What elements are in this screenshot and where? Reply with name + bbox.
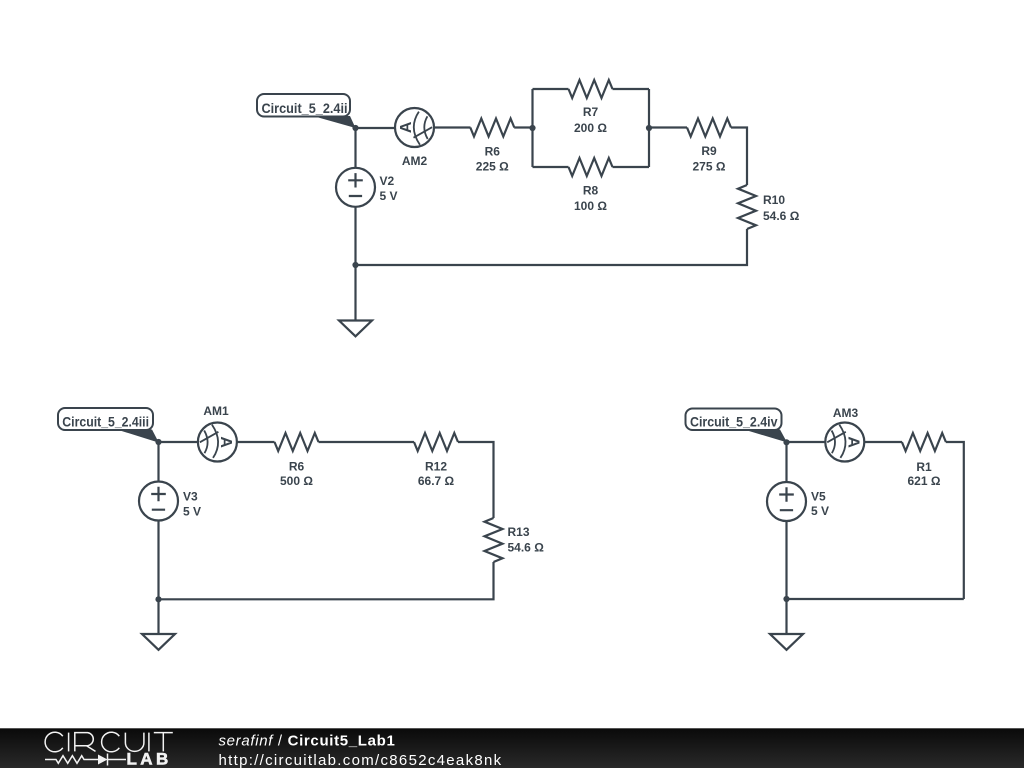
svg-text:5 V: 5 V [380,189,398,203]
svg-text:V2: V2 [380,174,395,188]
svg-text:275 Ω: 275 Ω [693,159,726,173]
svg-text:621 Ω: 621 Ω [908,474,941,488]
svg-text:AM3: AM3 [833,406,859,420]
svg-text:V3: V3 [183,489,198,503]
svg-text:Circuit_5_2.4ii: Circuit_5_2.4ii [262,100,348,116]
svg-text:R7: R7 [583,105,599,119]
svg-text:V5: V5 [811,489,826,503]
svg-text:serafinf / Circuit5_Lab1: serafinf / Circuit5_Lab1 [219,733,396,750]
svg-text:5 V: 5 V [811,504,829,518]
svg-text:LAB: LAB [127,750,172,768]
svg-text:R9: R9 [701,144,717,158]
svg-text:225 Ω: 225 Ω [476,160,509,174]
svg-text:R6: R6 [485,144,501,158]
svg-text:R1: R1 [916,460,932,474]
svg-text:Circuit_5_2.4iii: Circuit_5_2.4iii [62,414,149,430]
svg-text:R8: R8 [583,183,599,197]
svg-text:54.6 Ω: 54.6 Ω [763,209,800,223]
svg-text:5 V: 5 V [183,504,201,518]
svg-text:http://circuitlab.com/c8652c4e: http://circuitlab.com/c8652c4eak8nk [219,752,503,768]
svg-text:R13: R13 [508,525,530,539]
svg-text:AM2: AM2 [402,154,428,168]
svg-text:R12: R12 [425,460,447,474]
svg-text:54.6 Ω: 54.6 Ω [508,540,545,554]
svg-text:R6: R6 [289,460,305,474]
svg-text:100 Ω: 100 Ω [574,199,607,213]
svg-text:66.7 Ω: 66.7 Ω [418,474,455,488]
svg-text:Circuit_5_2.4iv: Circuit_5_2.4iv [690,414,778,430]
svg-text:AM1: AM1 [203,404,229,418]
svg-text:R10: R10 [763,193,785,207]
svg-text:500 Ω: 500 Ω [280,474,313,488]
svg-text:200 Ω: 200 Ω [574,121,607,135]
